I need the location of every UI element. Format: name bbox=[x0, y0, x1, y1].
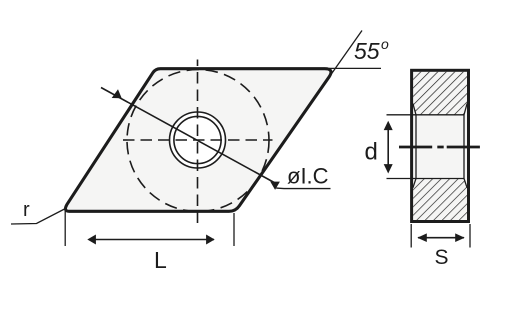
svg-text:o: o bbox=[381, 36, 389, 52]
svg-text:øI.C: øI.C bbox=[287, 164, 329, 189]
svg-text:L: L bbox=[154, 247, 167, 273]
svg-text:55: 55 bbox=[354, 38, 380, 64]
svg-text:r: r bbox=[23, 199, 30, 221]
svg-text:S: S bbox=[435, 246, 449, 269]
svg-text:d: d bbox=[365, 139, 378, 166]
